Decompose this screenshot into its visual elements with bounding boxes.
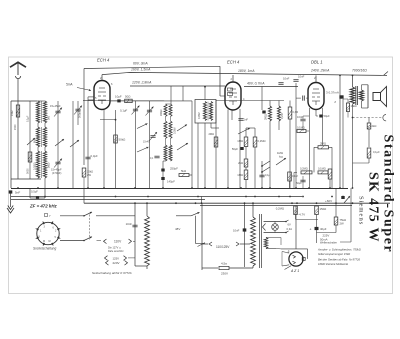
svg-text:2kΩ: 2kΩ: [238, 161, 243, 165]
svg-text:-4,7V: -4,7V: [298, 212, 305, 216]
svg-text:0,1µF: 0,1µF: [27, 115, 30, 122]
svg-text:1500: 1500: [14, 124, 17, 130]
svg-text:5nF: 5nF: [15, 191, 20, 195]
svg-text:0,3M: 0,3M: [293, 111, 299, 114]
svg-text:0,1MΩ: 0,1MΩ: [318, 167, 326, 171]
svg-text:150Ω: 150Ω: [320, 207, 327, 211]
svg-text:ZF = 472 kHz: ZF = 472 kHz: [29, 204, 58, 209]
svg-text:6V: 6V: [288, 223, 291, 227]
svg-text:0,1µ: 0,1µ: [265, 174, 270, 177]
svg-text:10nF: 10nF: [298, 75, 305, 79]
svg-text:log: log: [279, 155, 283, 159]
svg-text:2MΩ: 2MΩ: [320, 142, 326, 146]
svg-text:A Z 1: A Z 1: [290, 269, 299, 273]
svg-text:50µF: 50µF: [324, 114, 331, 118]
svg-text:10nF: 10nF: [233, 229, 240, 233]
svg-text:0,1µF: 0,1µF: [373, 150, 380, 154]
svg-text:Sockelschaltung: Sockelschaltung: [33, 247, 56, 251]
svg-text:390Ω: 390Ω: [265, 114, 268, 120]
svg-text:50kΩ: 50kΩ: [119, 138, 127, 142]
svg-text:Standard-Super: Standard-Super: [381, 135, 396, 254]
svg-text:560: 560: [47, 115, 50, 120]
svg-text:15kΩ: 15kΩ: [87, 170, 93, 174]
svg-text:0,05M: 0,05M: [198, 112, 201, 119]
svg-text:M: M: [43, 240, 45, 243]
svg-text:2W: 2W: [87, 173, 91, 177]
svg-text:15+45pF: 15+45pF: [50, 104, 61, 108]
svg-text:0,2MΩ: 0,2MΩ: [300, 167, 308, 171]
svg-text:120V, 2,8mA: 120V, 2,8mA: [132, 81, 152, 85]
svg-text:+60V: +60V: [325, 199, 332, 203]
svg-text:0,2M: 0,2M: [281, 113, 284, 119]
svg-text:2MΩ: 2MΩ: [208, 132, 214, 136]
svg-text:Anoden- u. Schirmgitterdros. 7: Anoden- u. Schirmgitterdros. 750kΩ: [317, 248, 361, 252]
svg-text:16MΩ kleinere Meßwerte: 16MΩ kleinere Meßwerte: [318, 262, 349, 266]
svg-text:48V: 48V: [175, 227, 180, 231]
svg-text:SK 475 W: SK 475 W: [366, 172, 381, 243]
svg-text:Die 127V u.: Die 127V u.: [108, 246, 121, 249]
svg-text:0,5µF: 0,5µF: [31, 190, 38, 194]
svg-text:0,3µF: 0,3µF: [91, 154, 98, 158]
svg-text:1MΩ: 1MΩ: [11, 111, 14, 116]
svg-text:Netzschaltung ab/für K 9772b: Netzschaltung ab/für K 9772b: [92, 271, 132, 275]
svg-text:ECH 4: ECH 4: [97, 58, 110, 63]
svg-text:15+45pF: 15+45pF: [51, 168, 62, 172]
svg-text:60V, 3mA: 60V, 3mA: [133, 62, 148, 66]
svg-text:4,5a: 4,5a: [221, 262, 227, 266]
svg-text:250pF: 250pF: [170, 167, 178, 171]
svg-text:0,2MΩ: 0,2MΩ: [258, 139, 266, 143]
svg-text:10nF: 10nF: [126, 222, 133, 226]
svg-text:0,3A: 0,3A: [287, 227, 293, 231]
svg-text:0,0030: 0,0030: [34, 162, 37, 170]
svg-text:0,05M: 0,05M: [173, 127, 176, 134]
svg-text:5000: 5000: [26, 168, 29, 174]
svg-text:Wellenschalter: Wellenschalter: [320, 241, 337, 245]
svg-text:Siemens: Siemens: [358, 196, 365, 225]
svg-text:145pF: 145pF: [167, 180, 175, 184]
svg-text:160V, 1,5mA: 160V, 1,5mA: [131, 68, 151, 72]
svg-text:50Ω: 50Ω: [125, 94, 131, 98]
svg-text:Gittervorspannungen 15kΩ: Gittervorspannungen 15kΩ: [318, 252, 350, 256]
svg-text:0,1µF: 0,1µF: [120, 109, 127, 113]
svg-text:5mA: 5mA: [66, 83, 73, 87]
svg-text:10nF: 10nF: [283, 77, 290, 81]
svg-text:240V, 29mA: 240V, 29mA: [310, 69, 330, 73]
svg-text:1MΩ: 1MΩ: [237, 173, 243, 177]
svg-text:110/125V: 110/125V: [216, 245, 230, 249]
svg-text:280pF: 280pF: [160, 109, 163, 116]
svg-text:5kΩ: 5kΩ: [181, 169, 186, 173]
svg-text:50µF: 50µF: [296, 182, 302, 185]
svg-text:ECH 4: ECH 4: [227, 60, 240, 65]
svg-text:110V: 110V: [114, 240, 122, 244]
svg-text:180V, 1mA: 180V, 1mA: [238, 69, 255, 73]
svg-text:(470pF): (470pF): [52, 171, 62, 175]
svg-text:220V: 220V: [113, 261, 120, 265]
svg-text:0,1MΩ: 0,1MΩ: [297, 126, 305, 130]
svg-text:50µF: 50µF: [232, 147, 239, 151]
svg-text:0,1M: 0,1M: [292, 175, 298, 178]
svg-text:15+45: 15+45: [143, 141, 150, 144]
svg-text:230V: 230V: [221, 272, 228, 276]
svg-text:1MΩ: 1MΩ: [237, 139, 243, 143]
svg-text:125V: 125V: [113, 256, 120, 260]
svg-text:Dafe anschtbr: Dafe anschtbr: [108, 250, 124, 253]
svg-text:10nF: 10nF: [297, 115, 303, 119]
svg-text:40µF: 40µF: [320, 227, 327, 231]
svg-text:Bei den Geräten ab Fabr. Nr 97: Bei den Geräten ab Fabr. Nr 97726: [318, 258, 361, 262]
svg-text:M: M: [49, 240, 51, 243]
svg-text:2W: 2W: [340, 222, 345, 226]
svg-text:10µF: 10µF: [115, 95, 122, 99]
svg-text:5600: 5600: [47, 162, 50, 168]
svg-text:1nF: 1nF: [244, 118, 249, 122]
svg-text:2kΩ: 2kΩ: [372, 124, 377, 128]
svg-text:DBL 1: DBL 1: [311, 60, 323, 65]
svg-text:3 0,37mA: 3 0,37mA: [326, 91, 339, 95]
svg-text:+: +: [310, 228, 312, 232]
svg-text:600: 600: [34, 138, 37, 143]
svg-text:40V, 0,7mA: 40V, 0,7mA: [247, 81, 265, 85]
svg-text:7000/16Ω: 7000/16Ω: [352, 69, 367, 73]
svg-text:0,2MΩ: 0,2MΩ: [276, 207, 284, 211]
